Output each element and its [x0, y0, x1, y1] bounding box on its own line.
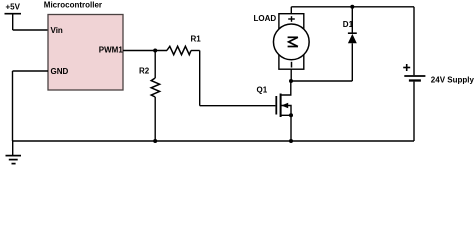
transistor Q1 gate bar — [275, 96, 277, 115]
motor body circle — [273, 24, 309, 60]
wire supply bottom lead — [413, 82, 415, 141]
motor minus sign (rotated) — [291, 62, 293, 68]
wire to Q1 gate — [200, 105, 276, 107]
svg-text:R1: R1 — [191, 35, 202, 44]
battery plus sign — [403, 64, 410, 71]
motor M glyph (rotated) — [288, 37, 298, 46]
transistor Q1 source stub — [281, 114, 291, 116]
svg-text:R2: R2 — [139, 66, 150, 75]
motor bottom terminal box — [279, 54, 304, 69]
battery positive long bar — [404, 75, 425, 77]
battery negative short bar — [409, 79, 421, 81]
resistor R1 — [167, 46, 191, 54]
wire left rail — [12, 71, 14, 141]
wire supply top riser — [413, 7, 415, 75]
transistor Q1 body arrow — [281, 103, 288, 109]
wire +5V stem — [12, 14, 14, 30]
resistor R2 — [151, 78, 159, 97]
motor top terminal box — [279, 14, 304, 29]
node junction drain/motor/D1 — [289, 79, 293, 83]
svg-text:LOAD: LOAD — [254, 14, 277, 23]
wire R2 top lead — [154, 51, 156, 79]
diode D1 cathode bar — [348, 32, 357, 34]
wire node to D1 anode — [291, 80, 352, 82]
transistor Q1 body stub — [281, 106, 291, 116]
wire R1 to corner — [191, 50, 200, 52]
wire D1 cathode lead — [351, 7, 353, 33]
transistor Q1 channel bar — [280, 94, 282, 118]
node junction top bus/D1 — [350, 5, 354, 9]
wire PWM1 to R1 — [123, 50, 167, 52]
svg-text:Vin: Vin — [51, 26, 63, 35]
svg-text:GND: GND — [51, 67, 69, 76]
wire top bus — [291, 6, 414, 8]
wire Q1 source to bus — [290, 115, 292, 141]
diode D1 triangle — [348, 34, 357, 43]
+5V power symbol bar — [5, 13, 22, 15]
wire D1 anode lead — [351, 43, 353, 81]
node junction source/bus — [289, 139, 293, 143]
wire +5V to Vin — [13, 29, 48, 31]
wire GND pin to left rail — [13, 70, 49, 72]
wire corner down — [199, 51, 201, 106]
wire bottom bus — [13, 140, 415, 142]
transistor Q1 drain stub — [281, 81, 291, 95]
wire motor bottom to node — [290, 69, 292, 81]
node junction R2/bus — [153, 139, 157, 143]
motor plus sign — [288, 16, 295, 22]
svg-text:Microcontroller: Microcontroller — [44, 1, 102, 10]
svg-text:Q1: Q1 — [257, 86, 268, 95]
svg-text:PWM1: PWM1 — [99, 46, 124, 55]
node junction PWM1/R2 — [153, 49, 157, 53]
wire ground stem — [12, 141, 14, 155]
wire motor top riser — [290, 7, 292, 14]
ground symbol — [6, 156, 22, 164]
node junction body/source — [289, 113, 293, 117]
microcontroller U1 box — [48, 15, 123, 91]
wire R2 bottom lead — [154, 97, 156, 141]
svg-text:24V Supply: 24V Supply — [431, 75, 474, 84]
svg-text:+5V: +5V — [6, 3, 21, 12]
